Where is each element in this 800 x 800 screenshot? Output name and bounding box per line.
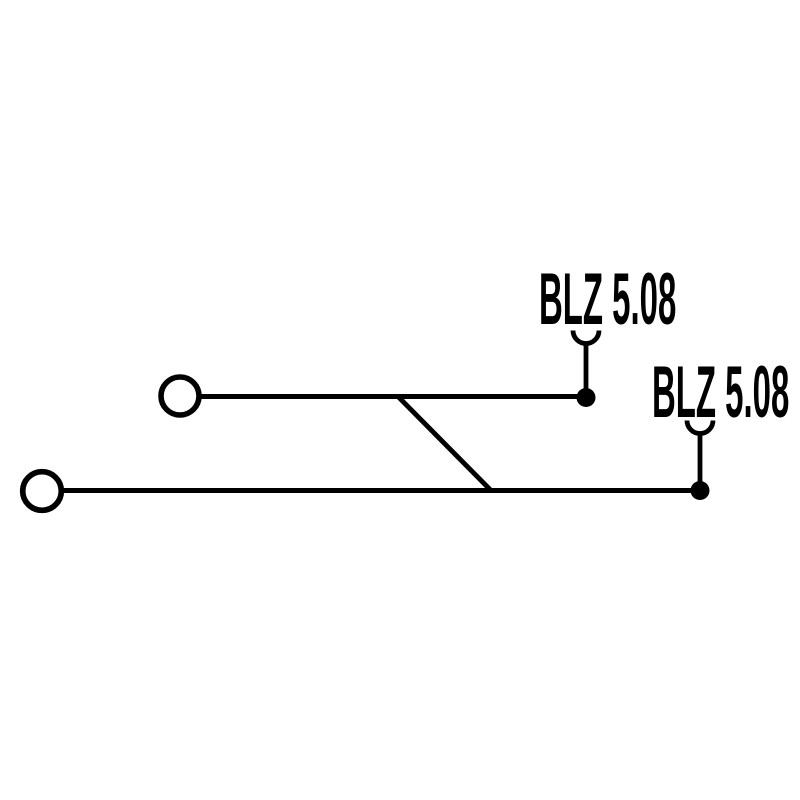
wire: upper level horizontal [199,394,586,399]
wire: stem to lower BLZ clamp [698,434,703,490]
wire: diagonal cross-connection [398,397,491,491]
junction dot (node, lower) [691,481,710,500]
terminal circle (lower level plug) [23,472,62,511]
svg-text:BLZ 5.08: BLZ 5.08 [652,351,789,432]
clamp arc symbol (lower BLZ 5.08 connector) [687,421,713,434]
wire: lower level horizontal [61,488,700,493]
junction dot (node, upper) [577,388,596,407]
wire: stem to upper BLZ clamp [584,344,589,397]
svg-text:BLZ 5.08: BLZ 5.08 [539,258,676,339]
terminal circle (upper level plug) [161,377,199,415]
clamp arc symbol (upper BLZ 5.08 connector) [573,331,599,344]
